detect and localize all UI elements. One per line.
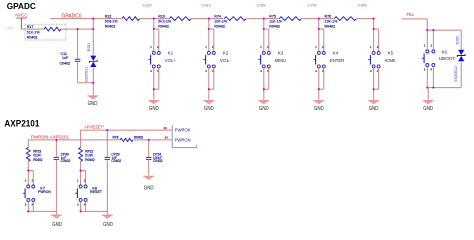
svg-text:C0402: C0402 (61, 159, 71, 163)
diode D2 (ESD) (458, 50, 464, 55)
ground GND (K3) (258, 100, 269, 102)
svg-text:GND: GND (423, 106, 433, 112)
junction K4 top (318, 18, 320, 20)
wire K2 tap (208, 19, 210, 52)
junction CP29 tap (106, 129, 108, 131)
svg-text:ESD: ESD (87, 42, 91, 51)
svg-text:GND: GND (204, 106, 214, 112)
wire K4 tap (318, 19, 320, 52)
IC outline AXP2101 (172, 125, 196, 148)
pushbutton K6 UBOOT (426, 50, 429, 53)
svg-text:R0402: R0402 (158, 25, 169, 29)
resistor R74 (224, 16, 247, 21)
svg-text:C0402: C0402 (60, 61, 71, 65)
wire K6 gnd stem (427, 88, 429, 100)
svg-text:11K-1%: 11K-1% (269, 20, 282, 24)
pushbutton K2 VOL- (207, 51, 210, 54)
wire CP30 bottom (55, 159, 57, 214)
svg-text:0.22V: 0.22V (143, 3, 153, 7)
svg-text:GND: GND (149, 106, 159, 112)
ground GND (D1/C11) (87, 95, 98, 97)
svg-text:GND: GND (259, 106, 269, 112)
svg-text:ESD: ESD (455, 35, 459, 44)
svg-text:GND: GND (103, 222, 113, 228)
junction K5 bottom (373, 88, 375, 90)
ground GND (CP24) (143, 175, 154, 177)
svg-text:K5: K5 (388, 51, 394, 56)
wire CP24 bottom (148, 159, 150, 175)
svg-text:GND: GND (369, 106, 379, 112)
wire RP23 top (27, 140, 29, 148)
wire PWRON net (28, 139, 120, 141)
svg-text:ESD05C12: ESD05C12 (85, 66, 89, 82)
svg-text:FEL: FEL (407, 12, 415, 17)
junction K8 stub (80, 170, 82, 172)
svg-text:510R: 510R (33, 154, 41, 158)
junction K4 stub (318, 28, 320, 30)
wire K5 tap (373, 19, 375, 52)
svg-text:R74: R74 (214, 15, 221, 19)
svg-text:R13: R13 (158, 15, 165, 19)
wire K3 bottom (263, 68, 265, 100)
svg-text:C0402: C0402 (111, 159, 121, 163)
wire K6 bottom (426, 66, 428, 87)
svg-text:VOL+: VOL+ (165, 58, 176, 63)
svg-text:K6: K6 (442, 49, 448, 54)
svg-text:1nF: 1nF (62, 56, 69, 60)
svg-text:6K2-1%: 6K2-1% (158, 20, 172, 24)
junction K3 bottom (263, 88, 265, 90)
svg-text:R0402: R0402 (269, 25, 280, 29)
svg-text:GND: GND (52, 222, 62, 228)
junction K1 bottom (153, 88, 155, 90)
ground GND (K5) (368, 100, 379, 102)
svg-text:K4: K4 (333, 51, 339, 56)
svg-text:UBOOT: UBOOT (439, 56, 456, 61)
wire RP23 to K7 (27, 161, 29, 185)
wire CP30 top (55, 140, 57, 158)
wire RP22 top (80, 130, 82, 147)
svg-text:K2: K2 (223, 51, 229, 56)
svg-text:R0402: R0402 (134, 136, 144, 140)
junction K6 pin1 rail (426, 29, 428, 31)
wire AP-RESET net (81, 129, 173, 131)
wire K6 top rail (427, 29, 461, 31)
junction K3 top (263, 18, 265, 20)
pushbutton K1 VOL+ (152, 51, 155, 54)
wire CP29 top (106, 130, 108, 157)
junction K7 stub (27, 170, 29, 172)
wire K3 tap (263, 19, 265, 52)
svg-text:R0402: R0402 (85, 158, 95, 162)
pushbutton K7 PWRON (27, 185, 30, 188)
junction K7 bottom (27, 210, 29, 212)
svg-text:1.8V: 1.8V (5, 25, 13, 30)
svg-text:29: 29 (163, 126, 167, 130)
svg-text:PWRON: PWRON (38, 190, 51, 194)
svg-text:510R: 510R (85, 154, 93, 158)
junction K6 pin2 rail (432, 29, 434, 31)
svg-text:AP-RESET*: AP-RESET* (84, 125, 104, 130)
ground GND (K7/CP30) (51, 214, 62, 216)
junction K6 pin3 rail (426, 87, 428, 89)
svg-text:PWRON-AXP2101: PWRON-AXP2101 (31, 134, 70, 139)
ground GND (K4) (313, 100, 324, 102)
resistor R12 (121, 16, 140, 21)
junction K4 bottom (318, 88, 320, 90)
junction CP24 tap (148, 139, 150, 141)
svg-text:GND: GND (144, 186, 154, 192)
svg-text:C0402: C0402 (153, 159, 163, 163)
ground GND (K8/CP29) (102, 214, 113, 216)
wire FEL (402, 18, 428, 20)
svg-text:R17: R17 (27, 25, 34, 29)
wire D2 top (460, 30, 462, 49)
svg-text:51K-1%: 51K-1% (27, 30, 41, 34)
svg-text:ESD05C12: ESD05C12 (454, 66, 458, 82)
wire R17 output (21, 28, 44, 30)
wire CP29 bottom (106, 159, 108, 214)
resistor R76 (334, 16, 357, 21)
wire D1 top (92, 29, 94, 55)
wire K8 bottom (80, 201, 82, 211)
wire GPADC0 main (50, 18, 373, 20)
svg-text:0.79V: 0.79V (308, 3, 318, 7)
wire D1 bottom (92, 67, 94, 95)
junction K8 bottom (80, 210, 82, 212)
svg-text:RESET: RESET (90, 190, 103, 194)
wire K5 bottom (373, 68, 375, 100)
svg-text:0.98V: 0.98V (358, 3, 368, 7)
svg-text:R0402: R0402 (105, 25, 116, 29)
option box (dashed) (25, 24, 66, 40)
svg-text:0.59V: 0.59V (257, 3, 267, 7)
junction CP30 tap (55, 139, 57, 141)
junction K1 top (153, 18, 155, 20)
wire K2 bottom (208, 68, 210, 100)
svg-text:R76: R76 (325, 15, 332, 19)
junction node A (92, 28, 94, 30)
wire K1 bottom (153, 68, 155, 100)
junction K6 pin4 rail (432, 87, 434, 89)
pushbutton K5 HOME (372, 51, 375, 54)
svg-text:VOL-: VOL- (220, 58, 232, 63)
junction K5 top (373, 18, 375, 20)
svg-text:30: 30 (165, 136, 169, 140)
svg-text:GND: GND (314, 106, 324, 112)
svg-text:R0402: R0402 (214, 25, 225, 29)
svg-text:MENU: MENU (275, 58, 286, 63)
diode D1 (ESD) (90, 56, 96, 61)
junction C11 tap (77, 28, 79, 30)
svg-text:R0402: R0402 (325, 25, 336, 29)
svg-text:PWROK: PWROK (175, 128, 191, 133)
svg-text:AXP2101: AXP2101 (4, 119, 39, 129)
svg-text:R78: R78 (113, 136, 119, 140)
junction K3 stub (263, 28, 265, 30)
wire K7 bottom (27, 201, 29, 211)
wire C11 bottom (77, 61, 79, 83)
junction D1/C11 gnd (92, 82, 94, 84)
ground GND (K1) (148, 100, 159, 102)
resistor R75 (279, 16, 302, 21)
junction K2 stub (208, 28, 210, 30)
wire K1 tap (153, 19, 155, 52)
pushbutton K4 ENTER (317, 51, 320, 54)
svg-text:0.41V: 0.41V (202, 3, 212, 7)
svg-text:6K8-1%: 6K8-1% (105, 20, 119, 24)
svg-text:K1: K1 (168, 51, 174, 56)
junction K2 top (208, 18, 210, 20)
svg-text:R0402: R0402 (33, 158, 43, 162)
svg-text:AVCC: AVCC (15, 13, 29, 18)
svg-text:GPADC: GPADC (7, 1, 36, 11)
wire D2 bottom (460, 61, 462, 87)
ground GND (K6) (423, 100, 434, 102)
pushbutton K3 MENU (262, 51, 265, 54)
svg-text:13K-1%: 13K-1% (325, 20, 339, 24)
wire node A vertical (92, 19, 94, 30)
junction K1 stub (153, 28, 155, 30)
svg-text:PWRON: PWRON (175, 137, 191, 142)
junction K5 stub (373, 28, 375, 30)
wire CP24 top (148, 140, 150, 158)
ground GND (K2) (203, 100, 214, 102)
svg-text:R75: R75 (269, 15, 276, 19)
junction GPADC0/node A (92, 18, 94, 20)
svg-text:K3: K3 (278, 51, 284, 56)
pushbutton K8 RESET (79, 185, 82, 188)
wire C11 top (77, 29, 79, 59)
svg-text:10K-1%: 10K-1% (214, 20, 228, 24)
svg-text:R12: R12 (105, 15, 112, 19)
junction K2 bottom (208, 88, 210, 90)
resistor R13 (169, 16, 192, 21)
svg-text:GND: GND (88, 101, 98, 107)
wire RP22 to K8 (80, 161, 82, 185)
svg-text:ENTER: ENTER (330, 58, 345, 63)
wire K4 bottom (318, 68, 320, 100)
svg-text:HOME: HOME (385, 58, 396, 63)
svg-text:R0402: R0402 (27, 35, 38, 39)
